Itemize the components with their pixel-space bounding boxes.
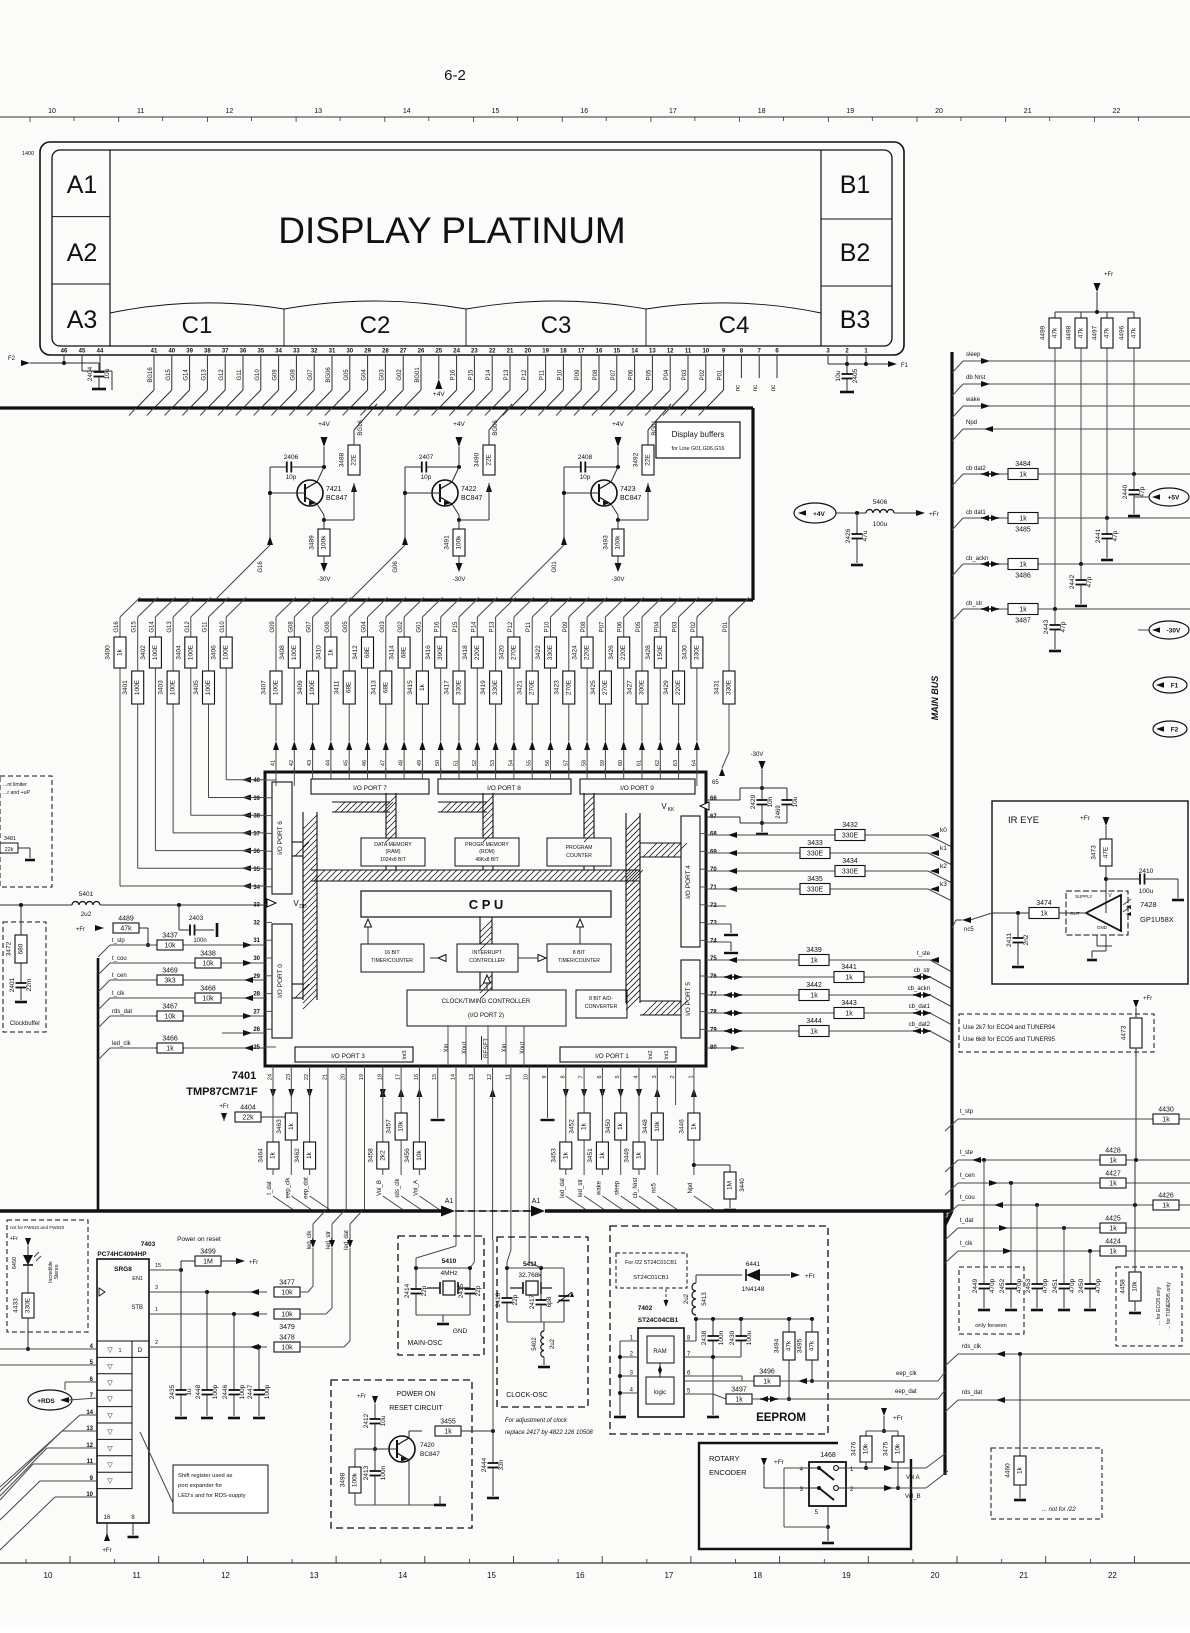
svg-text:3477: 3477 xyxy=(279,1280,295,1287)
svg-text:▽: ▽ xyxy=(107,1462,113,1469)
wire pins 3 2 1 stubs xyxy=(827,356,829,364)
svg-text:P10: P10 xyxy=(557,369,563,380)
row led_clk xyxy=(110,1047,265,1049)
Vdd label and arrow xyxy=(267,899,276,907)
svg-text:66: 66 xyxy=(710,796,717,802)
resistor 3462 1k column pin22 eep_dat xyxy=(309,1066,311,1142)
svg-text:5401: 5401 xyxy=(79,891,94,898)
top ruler xyxy=(0,116,1190,118)
capacitor 2448 100p xyxy=(206,1292,208,1390)
svg-text:3: 3 xyxy=(155,1285,158,1291)
svg-text:1k: 1k xyxy=(117,648,124,656)
svg-text:P16: P16 xyxy=(451,369,457,380)
svg-text:P05: P05 xyxy=(636,621,642,632)
svg-text:100u: 100u xyxy=(1139,888,1154,895)
svg-text:8 BIT: 8 BIT xyxy=(573,950,586,956)
svg-text:22p: 22p xyxy=(421,1285,428,1296)
svg-text:P04: P04 xyxy=(664,369,670,380)
svg-text:26: 26 xyxy=(418,349,425,355)
svg-text:22p: 22p xyxy=(512,1294,519,1305)
svg-text:RESET: RESET xyxy=(484,1038,490,1058)
crystal 5411 xyxy=(510,1287,523,1289)
svg-text:330E: 330E xyxy=(807,887,824,894)
pins 21-19 wires down xyxy=(327,1066,329,1211)
svg-text:16: 16 xyxy=(580,108,588,115)
svg-text:3449: 3449 xyxy=(624,1148,631,1163)
svg-text:Vol_B: Vol_B xyxy=(905,1494,921,1500)
svg-text:nc: nc xyxy=(753,385,759,391)
svg-text:12: 12 xyxy=(667,349,674,355)
svg-text:G10: G10 xyxy=(255,369,261,381)
svg-text:F2: F2 xyxy=(1171,727,1179,734)
capacitor 2451 470p xyxy=(1063,1228,1065,1284)
svg-text:47k: 47k xyxy=(809,1340,816,1351)
svg-text:I/O PORT 1: I/O PORT 1 xyxy=(595,1053,629,1060)
svg-text:10u: 10u xyxy=(792,796,799,807)
eeprom pin7 row xyxy=(684,1356,741,1358)
svg-text:BG16: BG16 xyxy=(148,367,154,383)
svg-text:DD: DD xyxy=(299,904,307,910)
svg-text:DATA MEMORY: DATA MEMORY xyxy=(374,842,412,848)
program counter box xyxy=(547,838,611,866)
svg-text:2406: 2406 xyxy=(284,454,299,461)
wire +4V to +Fr xyxy=(836,512,866,514)
svg-text:42: 42 xyxy=(289,760,295,766)
svg-text:100p: 100p xyxy=(239,1384,246,1399)
not for 22 dashed box resistor 4460 xyxy=(1019,1354,1021,1456)
svg-text:+Fr: +Fr xyxy=(249,1260,258,1266)
svg-text:1k: 1k xyxy=(810,993,818,1000)
svg-text:t_ste: t_ste xyxy=(960,1150,974,1156)
svg-text:20: 20 xyxy=(524,349,531,355)
svg-text:Display buffers: Display buffers xyxy=(672,430,725,439)
svg-text:1k: 1k xyxy=(1019,562,1027,569)
svg-text:24: 24 xyxy=(453,349,460,355)
io port 0 box xyxy=(272,924,292,1038)
svg-text:Shift register used as: Shift register used as xyxy=(178,1473,233,1479)
svg-text:+Fr: +Fr xyxy=(219,1104,228,1110)
svg-text:G04: G04 xyxy=(362,369,368,381)
svg-text:2450: 2450 xyxy=(1078,1278,1085,1293)
svg-text:470p: 470p xyxy=(1095,1278,1102,1293)
svg-text:TIMER/COUNTER: TIMER/COUNTER xyxy=(371,958,413,964)
svg-text:220E: 220E xyxy=(584,644,591,660)
wire BG output slant 7421 xyxy=(354,404,377,430)
svg-text:38: 38 xyxy=(253,814,260,820)
svg-text:64: 64 xyxy=(691,760,697,766)
svg-text:3474: 3474 xyxy=(1036,900,1052,907)
svg-text:Clockbuffer: Clockbuffer xyxy=(10,1021,40,1027)
svg-text:G05: G05 xyxy=(343,621,349,633)
clock row resistor 3477 10k xyxy=(149,1291,267,1293)
svg-text:(I/O PORT 2): (I/O PORT 2) xyxy=(468,1012,504,1019)
svg-text:3466: 3466 xyxy=(162,1036,178,1043)
svg-text:10u: 10u xyxy=(835,370,842,381)
svg-text:23: 23 xyxy=(471,349,478,355)
svg-text:G08: G08 xyxy=(290,369,296,381)
svg-text:47p: 47p xyxy=(1060,621,1067,632)
svg-text:G15: G15 xyxy=(166,369,172,381)
D row resistor 3478 10k xyxy=(149,1346,267,1348)
svg-text:C2: C2 xyxy=(360,312,391,339)
svg-text:1k: 1k xyxy=(617,1122,624,1130)
inductor 5406 100u xyxy=(866,510,894,513)
svg-text:65: 65 xyxy=(712,780,719,786)
svg-text:37: 37 xyxy=(222,349,229,355)
svg-text:2430: 2430 xyxy=(729,1330,736,1345)
display cell column B xyxy=(820,150,822,346)
svg-text:CLOCK-OSC: CLOCK-OSC xyxy=(506,1392,548,1399)
resistor 3453 1k column pin8 led_dat xyxy=(565,1066,567,1142)
svg-text:3437: 3437 xyxy=(162,933,178,940)
svg-text:I/O PORT 0: I/O PORT 0 xyxy=(277,964,284,998)
led row wires lower xyxy=(80,1414,97,1416)
eeprom pin5 row resistor 3497 1k eep_dat xyxy=(684,1393,713,1395)
svg-text:3487: 3487 xyxy=(1015,618,1031,625)
svg-text:1k: 1k xyxy=(810,958,818,965)
svg-text:3427: 3427 xyxy=(627,680,634,695)
resistor 3449 1k column pin4 cb_Nrst xyxy=(638,1066,640,1142)
pin 73 stub xyxy=(706,923,731,925)
row t_clk resistor 4424 xyxy=(958,1250,1190,1252)
svg-text:(ROM): (ROM) xyxy=(479,849,495,855)
svg-text:18: 18 xyxy=(560,349,567,355)
svg-text:▽: ▽ xyxy=(107,1363,113,1370)
svg-text:3433: 3433 xyxy=(807,840,823,847)
svg-text:P09: P09 xyxy=(575,369,581,380)
svg-text:3410: 3410 xyxy=(315,645,322,660)
crystal 5410 xyxy=(427,1287,440,1289)
wire buffer input G06 xyxy=(403,491,407,495)
svg-text:7403: 7403 xyxy=(141,1241,156,1248)
svg-text:63: 63 xyxy=(673,760,679,766)
svg-text:G01: G01 xyxy=(416,621,422,633)
svg-text:EN1: EN1 xyxy=(132,1276,143,1282)
inner dashed box ST24C01CB1 xyxy=(616,1253,687,1288)
svg-text:10k: 10k xyxy=(1132,1281,1139,1292)
svg-text:G03: G03 xyxy=(379,369,385,381)
svg-text:22: 22 xyxy=(1113,108,1121,115)
svg-text:49: 49 xyxy=(417,760,423,766)
svg-text:1M: 1M xyxy=(727,1181,734,1190)
svg-text:DISPLAY PLATINUM: DISPLAY PLATINUM xyxy=(278,210,626,251)
svg-text:11: 11 xyxy=(133,1571,142,1580)
svg-text:40: 40 xyxy=(168,349,175,355)
svg-text:41: 41 xyxy=(271,760,277,766)
svg-text:100E: 100E xyxy=(134,679,141,695)
svg-text:only forseen: only forseen xyxy=(975,1323,1007,1329)
svg-text:+RDS: +RDS xyxy=(37,1398,55,1405)
svg-text:31: 31 xyxy=(253,938,260,944)
svg-text:4425: 4425 xyxy=(1105,1216,1121,1223)
svg-text:11: 11 xyxy=(685,349,692,355)
svg-text:3423: 3423 xyxy=(553,680,560,695)
io port 9 box xyxy=(580,779,695,794)
svg-text:1k: 1k xyxy=(1019,516,1027,523)
connector ellipse F1 xyxy=(1153,677,1187,693)
svg-text:19: 19 xyxy=(542,349,549,355)
capacitor 2441 47p xyxy=(1100,517,1102,519)
svg-text:4460: 4460 xyxy=(1005,1463,1012,1478)
svg-text:7423: 7423 xyxy=(620,486,636,493)
svg-text:22E: 22E xyxy=(486,454,493,466)
svg-text:1k: 1k xyxy=(735,1397,743,1404)
svg-text:33: 33 xyxy=(293,349,300,355)
svg-text:330E: 330E xyxy=(693,644,700,660)
svg-text:5406: 5406 xyxy=(873,499,888,506)
svg-text:100E: 100E xyxy=(291,644,298,660)
supply +Fr rotary xyxy=(761,1458,767,1466)
capacitor 2412 10u xyxy=(370,1418,381,1420)
svg-text:2435: 2435 xyxy=(169,1384,176,1399)
svg-text:1k: 1k xyxy=(810,1029,818,1036)
svg-text:45: 45 xyxy=(344,760,350,766)
svg-text:19: 19 xyxy=(846,108,854,115)
svg-text:2442: 2442 xyxy=(1069,574,1076,589)
svg-text:100u: 100u xyxy=(746,1330,753,1345)
svg-text:+Fr: +Fr xyxy=(10,1236,19,1242)
eeprom dashed box xyxy=(610,1226,828,1434)
svg-text:db Nrst: db Nrst xyxy=(966,375,986,381)
row t_cou xyxy=(110,962,265,964)
svg-text:+Fr: +Fr xyxy=(102,1548,111,1554)
svg-text:3451: 3451 xyxy=(587,1148,594,1163)
svg-text:4489: 4489 xyxy=(118,916,134,923)
svg-text:ST24C01CB1: ST24C01CB1 xyxy=(633,1275,669,1281)
svg-text:47u: 47u xyxy=(862,530,869,541)
svg-text:4426: 4426 xyxy=(1158,1193,1174,1200)
svg-text:Xin: Xin xyxy=(444,1044,450,1053)
svg-text:P08: P08 xyxy=(593,369,599,380)
svg-text:3435: 3435 xyxy=(807,876,823,883)
row rds_clk xyxy=(958,1353,1190,1355)
io port 8 box xyxy=(438,779,571,794)
svg-text:BG01: BG01 xyxy=(415,367,421,383)
svg-text:470p: 470p xyxy=(1069,1278,1076,1293)
svg-text:1: 1 xyxy=(155,1307,158,1313)
svg-text:4424: 4424 xyxy=(1105,1239,1121,1246)
svg-text:1k: 1k xyxy=(1109,1249,1117,1256)
svg-text:P03: P03 xyxy=(673,621,679,632)
svg-text:Npd: Npd xyxy=(966,420,977,426)
svg-text:cb_dat2: cb_dat2 xyxy=(909,1022,931,1028)
svg-text:44: 44 xyxy=(97,349,104,355)
svg-text:61: 61 xyxy=(637,760,643,766)
svg-text:3479: 3479 xyxy=(279,1324,295,1331)
svg-text:68E: 68E xyxy=(401,646,408,658)
svg-text:5413: 5413 xyxy=(702,1292,708,1306)
transistor 7422 BC847 xyxy=(432,480,458,506)
supply -30V arrow 7422 xyxy=(458,556,460,563)
svg-text:Use 6k8 for ECO5 and TUNER95: Use 6k8 for ECO5 and TUNER95 xyxy=(963,1036,1056,1043)
svg-text:led_str: led_str xyxy=(578,1179,584,1197)
row db Nrst xyxy=(963,383,1190,385)
svg-text:100E: 100E xyxy=(223,644,230,660)
svg-text:4496: 4496 xyxy=(1119,325,1126,340)
svg-text:G15: G15 xyxy=(132,621,138,633)
svg-text:3475: 3475 xyxy=(883,1441,890,1456)
svg-text:3452: 3452 xyxy=(569,1119,576,1134)
io port 1 box xyxy=(560,1047,676,1062)
svg-text:10k: 10k xyxy=(202,996,214,1003)
svg-text:45: 45 xyxy=(79,349,86,355)
resistor 3495 47k xyxy=(811,1319,813,1332)
svg-text:1k: 1k xyxy=(562,1151,569,1159)
row cb_str resistor 3487 xyxy=(963,608,1190,610)
svg-text:470p: 470p xyxy=(989,1278,996,1293)
svg-text:3426: 3426 xyxy=(608,645,615,660)
svg-text:100E: 100E xyxy=(187,644,194,660)
svg-text:Vol A: Vol A xyxy=(906,1475,920,1481)
svg-text:+Fr: +Fr xyxy=(774,1459,785,1466)
svg-text:7421: 7421 xyxy=(326,486,342,493)
wire emitter node 7423 xyxy=(611,504,618,515)
svg-text:100n: 100n xyxy=(718,1330,725,1345)
capacitor 2438 100n xyxy=(712,1319,714,1336)
svg-text:3446: 3446 xyxy=(678,1119,685,1134)
capacitor 2469 10u xyxy=(782,799,793,801)
svg-text:BC847: BC847 xyxy=(420,1451,440,1458)
svg-text:1k: 1k xyxy=(288,1122,295,1130)
svg-text:21: 21 xyxy=(507,349,514,355)
power on reset circuit dashed box xyxy=(331,1380,472,1528)
supply -30V arrow 7423 xyxy=(617,556,619,563)
svg-text:10k: 10k xyxy=(281,1312,293,1319)
svg-text:3442: 3442 xyxy=(806,982,822,989)
shift register left wires xyxy=(0,1348,97,1350)
svg-text:3407: 3407 xyxy=(261,680,268,695)
svg-text:3404: 3404 xyxy=(175,645,182,660)
svg-text:P14: P14 xyxy=(486,369,492,380)
svg-text:2413: 2413 xyxy=(363,1465,370,1480)
svg-text:STB: STB xyxy=(131,1305,143,1311)
svg-text:32: 32 xyxy=(253,920,260,926)
capacitor 2440 47p xyxy=(1127,473,1129,475)
row t_cou resistor 4426 xyxy=(958,1204,1190,1206)
capacitor 2447 100p xyxy=(258,1347,260,1390)
svg-text:TMP87CM71F: TMP87CM71F xyxy=(186,1086,258,1098)
svg-text:3476: 3476 xyxy=(851,1441,858,1456)
svg-text:k2: k2 xyxy=(940,863,947,870)
trimmer capacitor xyxy=(559,1295,570,1297)
svg-text:68E: 68E xyxy=(382,681,389,693)
svg-text:3490: 3490 xyxy=(474,452,481,467)
svg-text:26: 26 xyxy=(253,1027,260,1033)
svg-text:4473: 4473 xyxy=(1121,1025,1128,1040)
resistor 3488 22E xyxy=(348,445,360,475)
svg-text:3478: 3478 xyxy=(279,1335,295,1342)
svg-text:6p8: 6p8 xyxy=(546,1296,553,1307)
resistor 3491 100k xyxy=(458,520,460,529)
svg-text:28: 28 xyxy=(382,349,389,355)
row cb dat2 resistor 3484 xyxy=(963,473,1190,475)
svg-text:3417: 3417 xyxy=(444,680,451,695)
logic box xyxy=(646,1377,674,1404)
wires from cpu pins to main osc xyxy=(455,1240,457,1246)
svg-text:cb_ackn: cb_ackn xyxy=(966,556,988,562)
svg-text:F1: F1 xyxy=(1171,683,1179,690)
svg-text:I/O PORT 4: I/O PORT 4 xyxy=(685,865,692,899)
svg-text:3443: 3443 xyxy=(841,1000,857,1007)
svg-text:3444: 3444 xyxy=(806,1018,822,1025)
svg-text:1k: 1k xyxy=(444,1429,452,1436)
inductor 5402 2u2 xyxy=(543,1322,545,1331)
current limiter dashed box xyxy=(0,776,52,887)
svg-text:P09: P09 xyxy=(563,621,569,632)
svg-text:sleep: sleep xyxy=(966,352,981,358)
svg-text:3440: 3440 xyxy=(740,1178,746,1192)
svg-text:+5V: +5V xyxy=(1168,495,1180,502)
svg-text:22E: 22E xyxy=(351,454,358,466)
svg-text:220E: 220E xyxy=(474,644,481,660)
svg-text:5402: 5402 xyxy=(532,1337,538,1351)
svg-text:cb_dat1: cb_dat1 xyxy=(909,1004,931,1010)
svg-text:+Fr: +Fr xyxy=(1104,272,1113,278)
svg-text:22p: 22p xyxy=(475,1285,482,1296)
svg-text:25: 25 xyxy=(435,349,442,355)
svg-text:P15: P15 xyxy=(468,369,474,380)
svg-text:...r and +uP: ...r and +uP xyxy=(3,790,31,796)
svg-text:G12: G12 xyxy=(219,369,225,381)
svg-text:3430: 3430 xyxy=(681,645,688,660)
svg-text:3402: 3402 xyxy=(140,645,147,660)
svg-text:2n2: 2n2 xyxy=(1023,934,1030,945)
svg-text:3450: 3450 xyxy=(605,1119,612,1134)
svg-text:BC847: BC847 xyxy=(326,495,348,502)
svg-text:nc5: nc5 xyxy=(651,1183,657,1193)
svg-text:-30V: -30V xyxy=(751,752,764,758)
svg-text:G09: G09 xyxy=(270,621,276,633)
svg-text:16: 16 xyxy=(576,1571,585,1580)
svg-text:3472: 3472 xyxy=(6,941,13,956)
shift register note box xyxy=(173,1465,268,1513)
svg-text:10k: 10k xyxy=(281,1345,293,1352)
svg-text:A1: A1 xyxy=(532,1198,541,1205)
svg-text:270E: 270E xyxy=(529,679,536,695)
cpu bottom fanout wires xyxy=(270,1089,276,1098)
wire reset to cpu pin 12 xyxy=(492,1240,494,1431)
wire nc5 out xyxy=(992,912,998,914)
svg-text:2403: 2403 xyxy=(189,915,204,922)
wire BG output slant 7423 xyxy=(648,404,671,430)
row cb_ackn resistor 3486 xyxy=(963,563,1190,565)
svg-text:10k: 10k xyxy=(654,1121,661,1132)
svg-text:1400: 1400 xyxy=(22,151,34,157)
svg-text:36: 36 xyxy=(240,349,247,355)
connector ellipse F2 xyxy=(1153,721,1187,737)
dashed arrow xyxy=(665,1289,667,1302)
svg-text:2449: 2449 xyxy=(972,1278,979,1293)
svg-text:470p: 470p xyxy=(1016,1278,1023,1293)
svg-text:330E: 330E xyxy=(726,679,733,695)
svg-text:1u: 1u xyxy=(186,1388,193,1396)
rotary encoder box xyxy=(699,1443,911,1549)
eeprom chip box xyxy=(638,1328,684,1417)
svg-text:47k: 47k xyxy=(1104,327,1111,338)
resistor 3457 10k column pin17 rds_clk xyxy=(400,1066,402,1113)
svg-text:10k: 10k xyxy=(164,943,176,950)
capacitor 2403 100n xyxy=(178,905,180,930)
resistor 3492 22E xyxy=(642,445,654,475)
clock timing controller box xyxy=(407,990,566,1026)
svg-text:2444: 2444 xyxy=(481,1457,488,1472)
svg-text:3497: 3497 xyxy=(731,1387,747,1394)
svg-text:12: 12 xyxy=(226,108,234,115)
svg-text:(RAM): (RAM) xyxy=(386,849,401,855)
resistor 3446 1k column pin1 Npd xyxy=(693,1066,695,1113)
pin 2 stub xyxy=(675,1066,677,1105)
svg-text:2448: 2448 xyxy=(195,1384,202,1399)
